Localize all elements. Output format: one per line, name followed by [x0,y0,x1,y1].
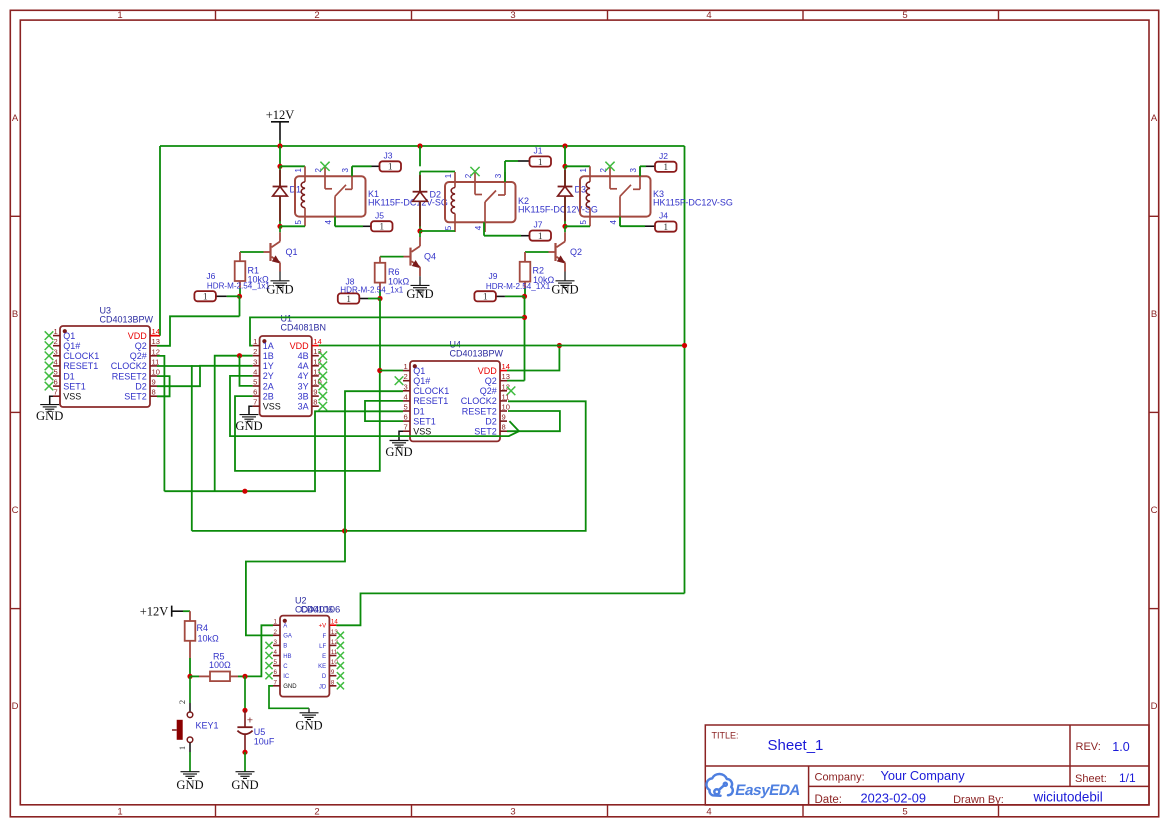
junction dot rail-cell1 [277,143,282,148]
svg-text:E: E [322,654,326,660]
junction dot cell1 top [277,164,282,169]
svg-text:3: 3 [510,10,515,21]
svg-text:Q2: Q2 [135,341,147,351]
U4 pin 4 (RESET1) [403,400,410,402]
U3 VSS ground wire [50,396,53,404]
wire J9 node down to U4 pin13 [524,296,526,380]
ground U4 [390,441,409,448]
U4 pin 6 (SET1) [403,420,410,422]
ruler row ticks left [10,215,20,217]
svg-text:5: 5 [579,220,588,225]
junction dot R2/J9 [522,294,527,299]
svg-text:4: 4 [706,807,711,818]
svg-text:2023-02-09: 2023-02-09 [861,791,926,806]
relay K1 coil pin1-pin5 [304,166,306,182]
svg-text:7: 7 [274,679,278,686]
ruler row ticks right [1149,215,1159,217]
U1 pin 6 (2B) [253,395,260,397]
svg-text:3: 3 [253,357,257,366]
svg-text:J1: J1 [534,146,543,156]
wire bridge segment y366 [191,365,200,367]
junction dot cell3 bottom [562,224,567,229]
U3 pin 14 (VDD) [150,335,157,337]
connector J8 wire [368,298,380,300]
svg-text:2Y: 2Y [263,371,274,381]
svg-text:Sheet_1: Sheet_1 [768,737,824,754]
svg-text:D: D [1151,701,1158,712]
junction dot R5 right / cap node [242,674,247,679]
EasyEDA logo [706,774,732,796]
junction dot U5 bottom [242,750,247,755]
no-connect X [337,652,344,659]
wire U1.1B left and down to Q2# bus [215,356,253,492]
svg-text:D2: D2 [430,190,442,200]
svg-text:Q4: Q4 [424,252,436,262]
wire U2.A pin1 to RC node [245,625,273,676]
no-connect X [265,672,272,679]
svg-text:1: 1 [54,327,58,336]
svg-text:JD: JD [319,684,327,690]
svg-text:Q2: Q2 [570,247,582,257]
svg-text:wiciutodebil: wiciutodebil [1033,790,1103,805]
svg-text:B: B [12,309,18,320]
U3 pin 13 (Q2) [150,345,157,347]
ground U2 [300,713,319,720]
svg-text:1.0: 1.0 [1112,740,1129,754]
wire +12V left drop to U3 VDD [159,146,161,336]
U2 pin 10 (KE) [329,665,336,667]
svg-text:VSS: VSS [413,427,431,437]
svg-text:GND: GND [385,445,412,459]
IC U1 body [260,336,312,416]
svg-text:SET1: SET1 [413,416,436,426]
no-connect X [45,362,54,371]
relay K3 coil pin1-pin5 [589,166,591,182]
svg-text:6: 6 [404,413,408,422]
U4 pin 8 (SET2) [500,430,507,432]
svg-text:RESET1: RESET1 [63,361,98,371]
svg-text:Q1: Q1 [63,331,75,341]
U3 pin 3 (CLOCK1) [53,355,60,357]
svg-text:Company:: Company: [815,772,865,784]
svg-text:8: 8 [313,398,317,407]
svg-text:10: 10 [313,378,321,387]
wire +12V right drop [684,146,686,593]
svg-text:J4: J4 [659,211,668,221]
U3 pin 7 (VSS) [53,395,60,397]
svg-text:CD40106: CD40106 [300,604,340,615]
wire cell2 top to K2 pin1 [420,171,455,173]
svg-text:IC: IC [283,674,290,680]
U3 pin 12 (Q2#) [150,355,157,357]
svg-text:5: 5 [54,368,58,377]
diode D1 [279,166,281,226]
wire U3.Q2# pin12 down to bus [157,356,164,491]
connector J8 [338,293,360,303]
svg-text:1: 1 [203,293,208,303]
svg-text:4: 4 [404,392,408,401]
wire U3.RESET2-SET2 tie [157,376,170,396]
svg-text:CLOCK1: CLOCK1 [63,351,99,361]
svg-text:A: A [283,624,287,630]
svg-text:2: 2 [253,347,257,356]
relay K2 pin3 contact [504,172,506,195]
svg-text:D: D [12,701,19,712]
svg-text:6: 6 [274,669,278,676]
svg-text:Sheet:: Sheet: [1075,773,1107,785]
svg-text:2: 2 [177,700,187,704]
no-connect X [265,652,272,659]
no-connect X [265,662,272,669]
svg-text:4A: 4A [298,361,309,371]
svg-text:5: 5 [294,220,303,225]
U1 pin 5 (2A) [253,385,260,387]
svg-text:13: 13 [313,347,321,356]
svg-text:9: 9 [331,669,335,676]
svg-text:Q1#: Q1# [413,376,430,386]
wire U3.Q2 pin13 to R1 node [157,316,240,346]
ruler column ticks top [215,10,217,20]
U2 pin 11 (E) [329,655,336,657]
svg-text:3Y: 3Y [298,381,309,391]
U4 pin 12 (Q2#) [500,390,507,392]
svg-text:Q1: Q1 [286,247,298,257]
svg-text:VDD: VDD [290,341,310,351]
svg-text:GND: GND [551,283,578,297]
svg-text:4: 4 [324,220,333,225]
U3 pin 1 (Q1) [53,335,60,337]
relay K2 body [445,182,516,222]
svg-text:D2: D2 [485,416,497,426]
U3 pin 9 (D2) [150,385,157,387]
U1 pin 13 (4B) [312,355,319,357]
no-connect X [319,392,328,401]
U1 pin 7 (VSS) [253,405,260,407]
connector J4 wire [619,217,621,227]
IC U2 pin-1 marker [283,619,287,623]
svg-text:1Y: 1Y [263,361,274,371]
svg-text:KEY1: KEY1 [196,721,219,731]
svg-text:2B: 2B [263,391,274,401]
svg-text:VDD: VDD [478,366,498,376]
svg-text:1/1: 1/1 [1119,771,1136,785]
junction dot U5 top [242,708,247,713]
wire Q1 base [240,251,264,253]
U2 pin 7 (GND) [273,685,280,687]
junction dot R4 bottom [187,674,192,679]
no-connect X on K1 pin2 [320,162,329,171]
junction dot R1/J6 [237,294,242,299]
wire cell3 top to K3 pin1 [565,165,590,167]
svg-text:1B: 1B [263,351,274,361]
wire cell2 drop [419,146,421,166]
U1 pin 2 (1B) [253,355,260,357]
U4 pin 2 (Q1#) [403,380,410,382]
wire bus Q2# horizontal [164,411,403,491]
U4 pin 11 (CLOCK2) [500,400,507,402]
connector J9 wire [505,295,525,297]
no-connect X [319,402,328,411]
svg-text:11: 11 [502,392,510,401]
svg-text:1: 1 [177,746,187,750]
U2 pin 4 (HB) [273,655,280,657]
ground under Q1 [271,281,290,288]
svg-text:J7: J7 [534,220,543,230]
wire J8 node down to U4 pin1 [379,299,381,371]
U1 pin 10 (3Y) [312,385,319,387]
svg-text:1: 1 [404,362,408,371]
junction dot U1.1B [237,353,242,358]
svg-text:5: 5 [902,10,907,21]
relay K1 pin4 common + blade [334,196,336,226]
ground U1 [240,415,259,422]
wire U4.CLOCK1 pin3 to clock bus and down to U2.GA [246,391,403,635]
no-connect X [337,662,344,669]
svg-text:5: 5 [444,225,453,230]
connector J6 [194,291,216,301]
no-connect X [45,352,54,361]
svg-text:5: 5 [253,378,257,387]
U1 VSS ground wire [249,406,253,414]
IC U4 body [410,361,500,441]
svg-text:CD4013BPW: CD4013BPW [100,314,154,324]
resistor R6 [379,257,381,263]
svg-text:D: D [322,674,327,680]
connector J7 wire [483,222,485,235]
svg-text:A: A [12,113,19,124]
svg-text:2: 2 [274,629,278,636]
IC U3 body [60,326,150,407]
U1 pin 12 (4A) [312,365,319,367]
svg-text:HDR-M-2.54_1x1: HDR-M-2.54_1x1 [340,286,403,295]
svg-text:1: 1 [117,807,122,818]
svg-text:5: 5 [902,807,907,818]
U1 pin 4 (2Y) [253,375,260,377]
svg-text:CD4081BN: CD4081BN [281,322,327,332]
svg-text:GND: GND [36,409,63,423]
relay K1 pin3 contact [351,166,353,189]
wire cell3 drop [564,146,566,166]
U1 pin 3 (1Y) [253,365,260,367]
no-connect X [265,642,272,649]
svg-text:+12V: +12V [266,108,295,122]
connector J5 [371,221,393,231]
svg-text:9: 9 [313,388,317,397]
no-connect X [45,382,54,391]
svg-text:3A: 3A [298,402,309,412]
U3 pin14 red stub extension [150,335,160,337]
connector J1 wire [504,161,506,182]
svg-text:10: 10 [152,368,160,377]
connector J7 [530,231,552,241]
wire cell2 bottom to K2 pin5 [420,230,455,232]
junction dot rail-cell2 [417,143,422,148]
svg-text:2A: 2A [263,381,274,391]
transistor Q2 [564,226,566,232]
svg-text:1: 1 [444,173,453,178]
relay K2 pin2 contact [474,172,476,195]
relay K3 pin3 contact [639,166,641,189]
ruler column ticks bottom [215,805,217,817]
svg-text:1: 1 [253,337,257,346]
resistor R4 [189,611,191,621]
connector J9 [474,291,496,301]
U4 pin 13 (Q2) [500,380,507,382]
wire U4.RESET1-SET1 tie [365,401,403,421]
junction dot on Q2# bus [242,489,247,494]
U4 pin 5 (D1) [403,410,410,412]
svg-text:Q2: Q2 [485,376,497,386]
svg-text:6: 6 [253,388,257,397]
relay K1 body [295,176,366,216]
svg-text:GND: GND [176,778,203,792]
svg-text:9: 9 [152,378,156,387]
wire cell3 bottom to K3 pin5 [565,225,590,227]
junction dot rail-cell3 [562,143,567,148]
svg-text:7: 7 [404,423,408,432]
no-connect X [45,331,54,340]
connector J1 [530,156,552,166]
svg-text:HDR-M-2.54_1x1: HDR-M-2.54_1x1 [207,282,270,291]
svg-text:10uF: 10uF [254,737,275,747]
svg-text:2: 2 [404,372,408,381]
U1 pin 9 (3B) [312,395,319,397]
connector J5 wire [334,217,336,227]
connector J2 [655,162,677,172]
svg-text:HK115F-DC12V-SG: HK115F-DC12V-SG [653,197,733,207]
U2 pin 2 (GA) [273,634,280,636]
svg-text:GND: GND [235,419,262,433]
wire +12V rail [160,145,685,147]
no-connect X [319,372,328,381]
U2 pin 14 (+V) [329,624,336,626]
IC U3 pin-1 marker [63,329,67,333]
svg-text:9: 9 [502,413,506,422]
svg-text:4: 4 [706,10,711,21]
svg-text:Q2#: Q2# [130,351,147,361]
svg-text:2: 2 [314,10,319,21]
U3 pin 2 (Q1#) [53,345,60,347]
svg-text:D1: D1 [413,406,425,416]
wire VDD horizontal U1.VDD to right drop [319,345,685,347]
no-connect X [337,642,344,649]
svg-text:1: 1 [663,163,668,173]
junction dot cell3 top [562,164,567,169]
svg-text:CD4013BPW: CD4013BPW [450,348,504,358]
junction dot cell2 bottom [417,228,422,233]
svg-text:100Ω: 100Ω [209,660,231,670]
U3 pin 5 (D1) [53,375,60,377]
relay K3 pin2 contact [609,166,611,189]
IC U1 pin-1 marker [262,339,266,343]
U3 pin 4 (RESET1) [53,365,60,367]
svg-text:RESET2: RESET2 [112,371,147,381]
junction dot cell1 bottom [277,224,282,229]
junction dot U1.1A bus tap [522,315,527,320]
resistor R5 [190,675,199,677]
U1 pin 1 (1A) [253,345,260,347]
svg-text:CLOCK2: CLOCK2 [461,396,497,406]
svg-text:13: 13 [152,337,160,346]
svg-text:8: 8 [502,423,506,432]
svg-text:4: 4 [253,367,257,376]
connector J3 wire [351,166,353,176]
svg-text:J3: J3 [384,151,393,161]
no-connect X on K3 pin2 [605,162,614,171]
svg-text:GND: GND [406,287,433,301]
svg-text:Q2#: Q2# [480,386,497,396]
wire U1.1B-2A tie [240,356,253,386]
U2 pin 5 (C) [273,665,280,667]
wire cell1 top to K1 pin1 [280,165,305,167]
svg-text:3: 3 [274,639,278,646]
U3 pin 6 (SET1) [53,385,60,387]
relay K1 pin2 contact [324,166,326,189]
junction dot R6/J8 [377,296,382,301]
svg-text:4B: 4B [298,351,309,361]
svg-text:5: 5 [404,403,408,412]
title block [705,725,1149,805]
svg-text:SET2: SET2 [124,392,147,402]
svg-text:SET2: SET2 [474,427,497,437]
svg-text:HDR-M-2.54_1X1: HDR-M-2.54_1X1 [486,282,551,291]
svg-text:SET1: SET1 [63,381,86,391]
wire U1.2B down to U4.Q1 net [235,371,380,471]
wire U3.CLOCK2 pin11 down [157,366,192,531]
U4 pin 9 (D2) [500,420,507,422]
svg-text:3: 3 [404,382,408,391]
svg-text:RESET2: RESET2 [462,406,497,416]
no-connect X [319,382,328,391]
svg-text:8: 8 [152,388,156,397]
svg-text:1: 1 [379,223,384,233]
wire U4.D2 diagonal [509,421,519,431]
svg-text:C: C [283,664,288,670]
U2 GND pin wire [269,686,309,708]
relay K3 pin4 common + blade [619,196,621,226]
connector J4 [655,222,677,232]
svg-text:J2: J2 [659,151,668,161]
svg-text:2: 2 [314,807,319,818]
diode D3 [564,166,566,226]
svg-text:1: 1 [663,223,668,233]
svg-text:+: + [247,715,253,727]
transistor Q1 [279,226,281,232]
ground under Q2 [556,281,575,288]
U2 pin 12 (LF) [329,644,336,646]
ground under KEY1 [181,772,200,779]
svg-text:1: 1 [483,293,488,303]
no-connect X [319,362,328,371]
U2 pin 3 (B) [273,644,280,646]
wire cell1 bottom to K1 pin5 [280,225,305,227]
svg-text:3: 3 [54,347,58,356]
wire U1.2Y down to U4.SET2 junction [230,376,519,436]
U4 pin 3 (CLOCK1) [403,390,410,392]
svg-text:3: 3 [341,168,350,173]
wire cell1 drop [279,146,281,166]
svg-text:1: 1 [579,168,588,173]
U2 pin 9 (D) [329,675,336,677]
svg-text:KE: KE [318,664,326,670]
wire Q2 base [525,251,549,253]
svg-text:REV:: REV: [1076,741,1101,753]
U1 pin 14 (VDD) [312,345,319,347]
wire clock bus horizontal [192,401,586,531]
svg-text:3: 3 [494,173,503,178]
junction dot U4.VDD tap [557,343,562,348]
U3 pin 10 (RESET2) [150,375,157,377]
